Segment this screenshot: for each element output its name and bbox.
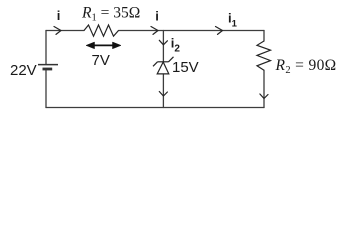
wire left lower (45, 70, 47, 108)
battery 22V short plate (43, 68, 53, 71)
resistor R2 (257, 41, 271, 70)
svg-text:R2 = 90Ω: R2 = 90Ω (275, 57, 337, 76)
svg-text:i: i (57, 8, 61, 23)
wire top-middle segment (119, 30, 265, 32)
voltage marker double arrow 7V (86, 42, 121, 49)
svg-text:i: i (155, 9, 159, 24)
wire middle branch lower (162, 74, 164, 108)
zener bar right bend (169, 57, 174, 62)
svg-text:R1 = 35Ω: R1 = 35Ω (81, 5, 140, 24)
zener diode D1 cathode bar (158, 61, 169, 63)
arrow right bottom (down) (260, 94, 268, 99)
wire left side (45, 31, 47, 65)
battery 22V long plate (38, 64, 58, 66)
current arrow i (left) (54, 27, 61, 35)
svg-text:15V: 15V (172, 59, 199, 76)
zener diode D1 triangle (157, 62, 169, 74)
current arrow i2 (down) (159, 40, 167, 45)
svg-text:7V: 7V (92, 52, 110, 69)
current arrow i1 (216, 27, 223, 35)
resistor R1 (84, 25, 119, 36)
svg-text:22V: 22V (10, 62, 37, 79)
wire right upper (263, 31, 265, 42)
zener bar left bend (153, 62, 158, 67)
current arrow i (middle) (151, 27, 158, 35)
arrow middle bottom (down) (159, 92, 167, 97)
wire bottom (46, 107, 264, 109)
wire top-left segment (46, 30, 84, 32)
wire right lower (263, 70, 265, 107)
wire middle branch upper (162, 31, 164, 62)
